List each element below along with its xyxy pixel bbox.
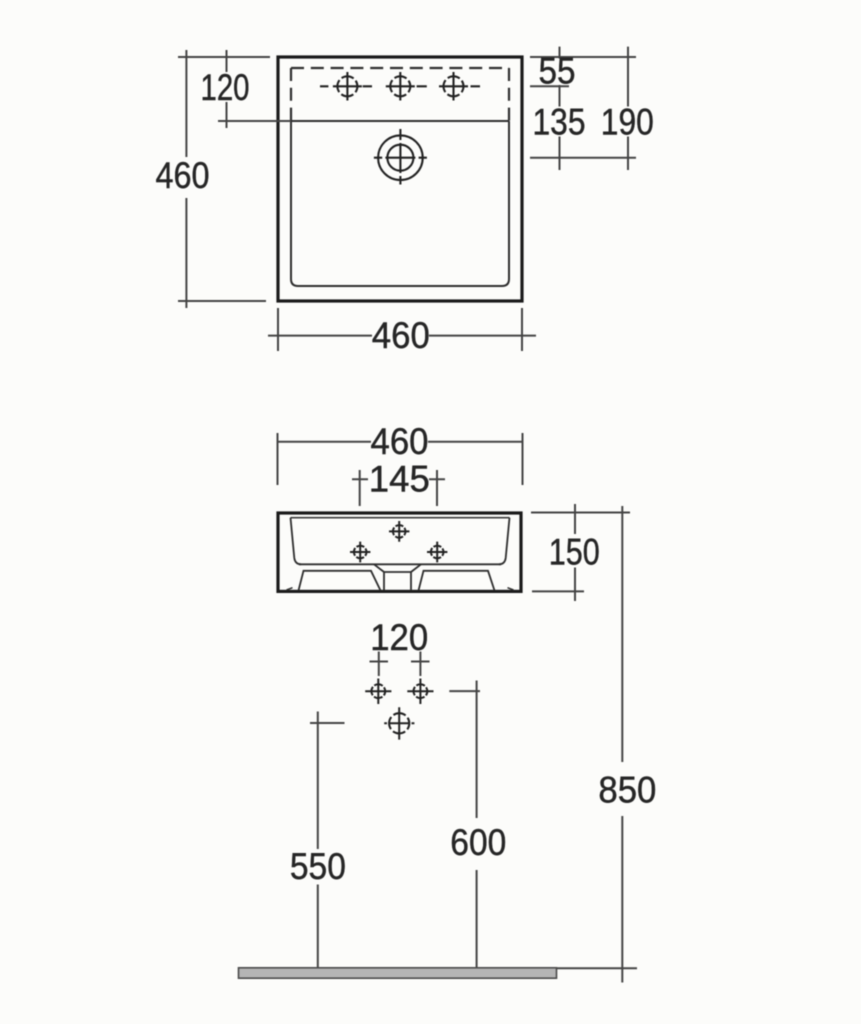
top view: inner basin walls <box>291 121 509 286</box>
dimension 550 extension tick <box>310 722 345 724</box>
label 135 <box>533 102 586 143</box>
front view: left inner wall <box>291 518 302 565</box>
extension line floor right (y=968.4) <box>535 967 637 969</box>
label 145 <box>369 459 430 500</box>
dimension 850 vertical line <box>621 506 623 983</box>
dimension 150 vertical line <box>574 504 576 601</box>
top view: drain inner circle <box>387 145 413 171</box>
label 190 <box>601 102 654 143</box>
dimension line 190 vertical <box>627 47 629 170</box>
top view: basin front edge line <box>291 120 509 122</box>
label 600 <box>450 822 506 863</box>
dimension 550 vertical line <box>317 712 319 968</box>
top view: faucet hole right <box>417 72 480 101</box>
front view: drain funnel <box>374 564 421 590</box>
front view: left foot <box>299 571 381 591</box>
wall hole left <box>365 679 391 705</box>
wall drain hole <box>384 707 414 739</box>
svg-text:850: 850 <box>598 770 656 811</box>
label 150 <box>549 532 600 573</box>
label 120 lower <box>370 617 428 658</box>
dimension 600 vertical line <box>476 681 478 968</box>
dimension 120 lower right tick <box>411 652 430 677</box>
svg-text:145: 145 <box>369 459 430 500</box>
dimension 460 left vertical line <box>185 50 187 308</box>
front view: left corner tick <box>287 588 293 590</box>
label 550 <box>290 846 346 887</box>
svg-text:55: 55 <box>539 51 576 92</box>
svg-text:460: 460 <box>156 155 210 196</box>
top view: faucet hole center <box>363 72 415 101</box>
extension line sink top right (y=512.5) <box>531 512 630 514</box>
svg-text:600: 600 <box>450 822 506 863</box>
top view: faucet hole left <box>320 72 362 101</box>
bottom 460 dimension line <box>268 335 536 337</box>
svg-text:190: 190 <box>601 102 654 143</box>
front view: right corner tick <box>508 588 514 590</box>
svg-text:135: 135 <box>533 102 586 143</box>
top view: outer rim square <box>278 57 522 301</box>
front view: right faucet hole <box>427 542 447 563</box>
dimension line 55 and 135 vertical <box>559 47 561 170</box>
top view: drain center lines <box>374 129 427 185</box>
top view: dashed tap deck edge <box>291 68 509 121</box>
front view: outer shell <box>278 513 521 591</box>
dimension 145 extension ticks <box>360 470 437 506</box>
dimension 120 vertical line <box>226 50 228 128</box>
svg-text:460: 460 <box>372 315 430 356</box>
svg-text:550: 550 <box>290 846 346 887</box>
extension line sink bottom right (y=591.4) <box>532 590 584 592</box>
bottom 460 extension lines <box>278 308 522 351</box>
extension line top left (y=57) <box>178 56 270 58</box>
label 460 front view <box>371 421 429 462</box>
right extension line at faucet axis (y=86.3) <box>530 85 569 87</box>
label 55 <box>539 51 576 92</box>
front view 460 extension lines <box>278 433 523 485</box>
extension line basin edge left (y=121) <box>218 120 291 122</box>
wall hole right <box>407 679 433 705</box>
label 460 bottom of top view <box>372 315 430 356</box>
svg-text:460: 460 <box>371 421 429 462</box>
dimension 600 extension tick <box>449 690 480 692</box>
label 460 left <box>156 155 210 196</box>
svg-text:150: 150 <box>549 532 600 573</box>
right extension line at rim top (y=57) <box>530 56 636 58</box>
svg-text:120: 120 <box>201 67 250 108</box>
floor slab <box>239 968 557 978</box>
dimension 145 line <box>352 478 445 480</box>
front view: center faucet hole <box>389 521 409 542</box>
extension line bottom left (y=301) <box>178 300 266 302</box>
top view: drain outer circle <box>378 135 423 180</box>
front view: left faucet hole <box>350 542 370 563</box>
front view: basin bottom line <box>299 563 501 565</box>
label 120 top <box>201 67 250 108</box>
label 850 <box>598 770 656 811</box>
front view 460 dimension line <box>277 441 522 443</box>
front view: right inner wall <box>499 518 510 565</box>
front view: right foot <box>419 571 495 591</box>
right extension line at drain axis (y=157.7) <box>530 157 636 159</box>
front view: rim inner line <box>291 517 510 519</box>
dimension 120 lower left tick <box>370 652 389 677</box>
